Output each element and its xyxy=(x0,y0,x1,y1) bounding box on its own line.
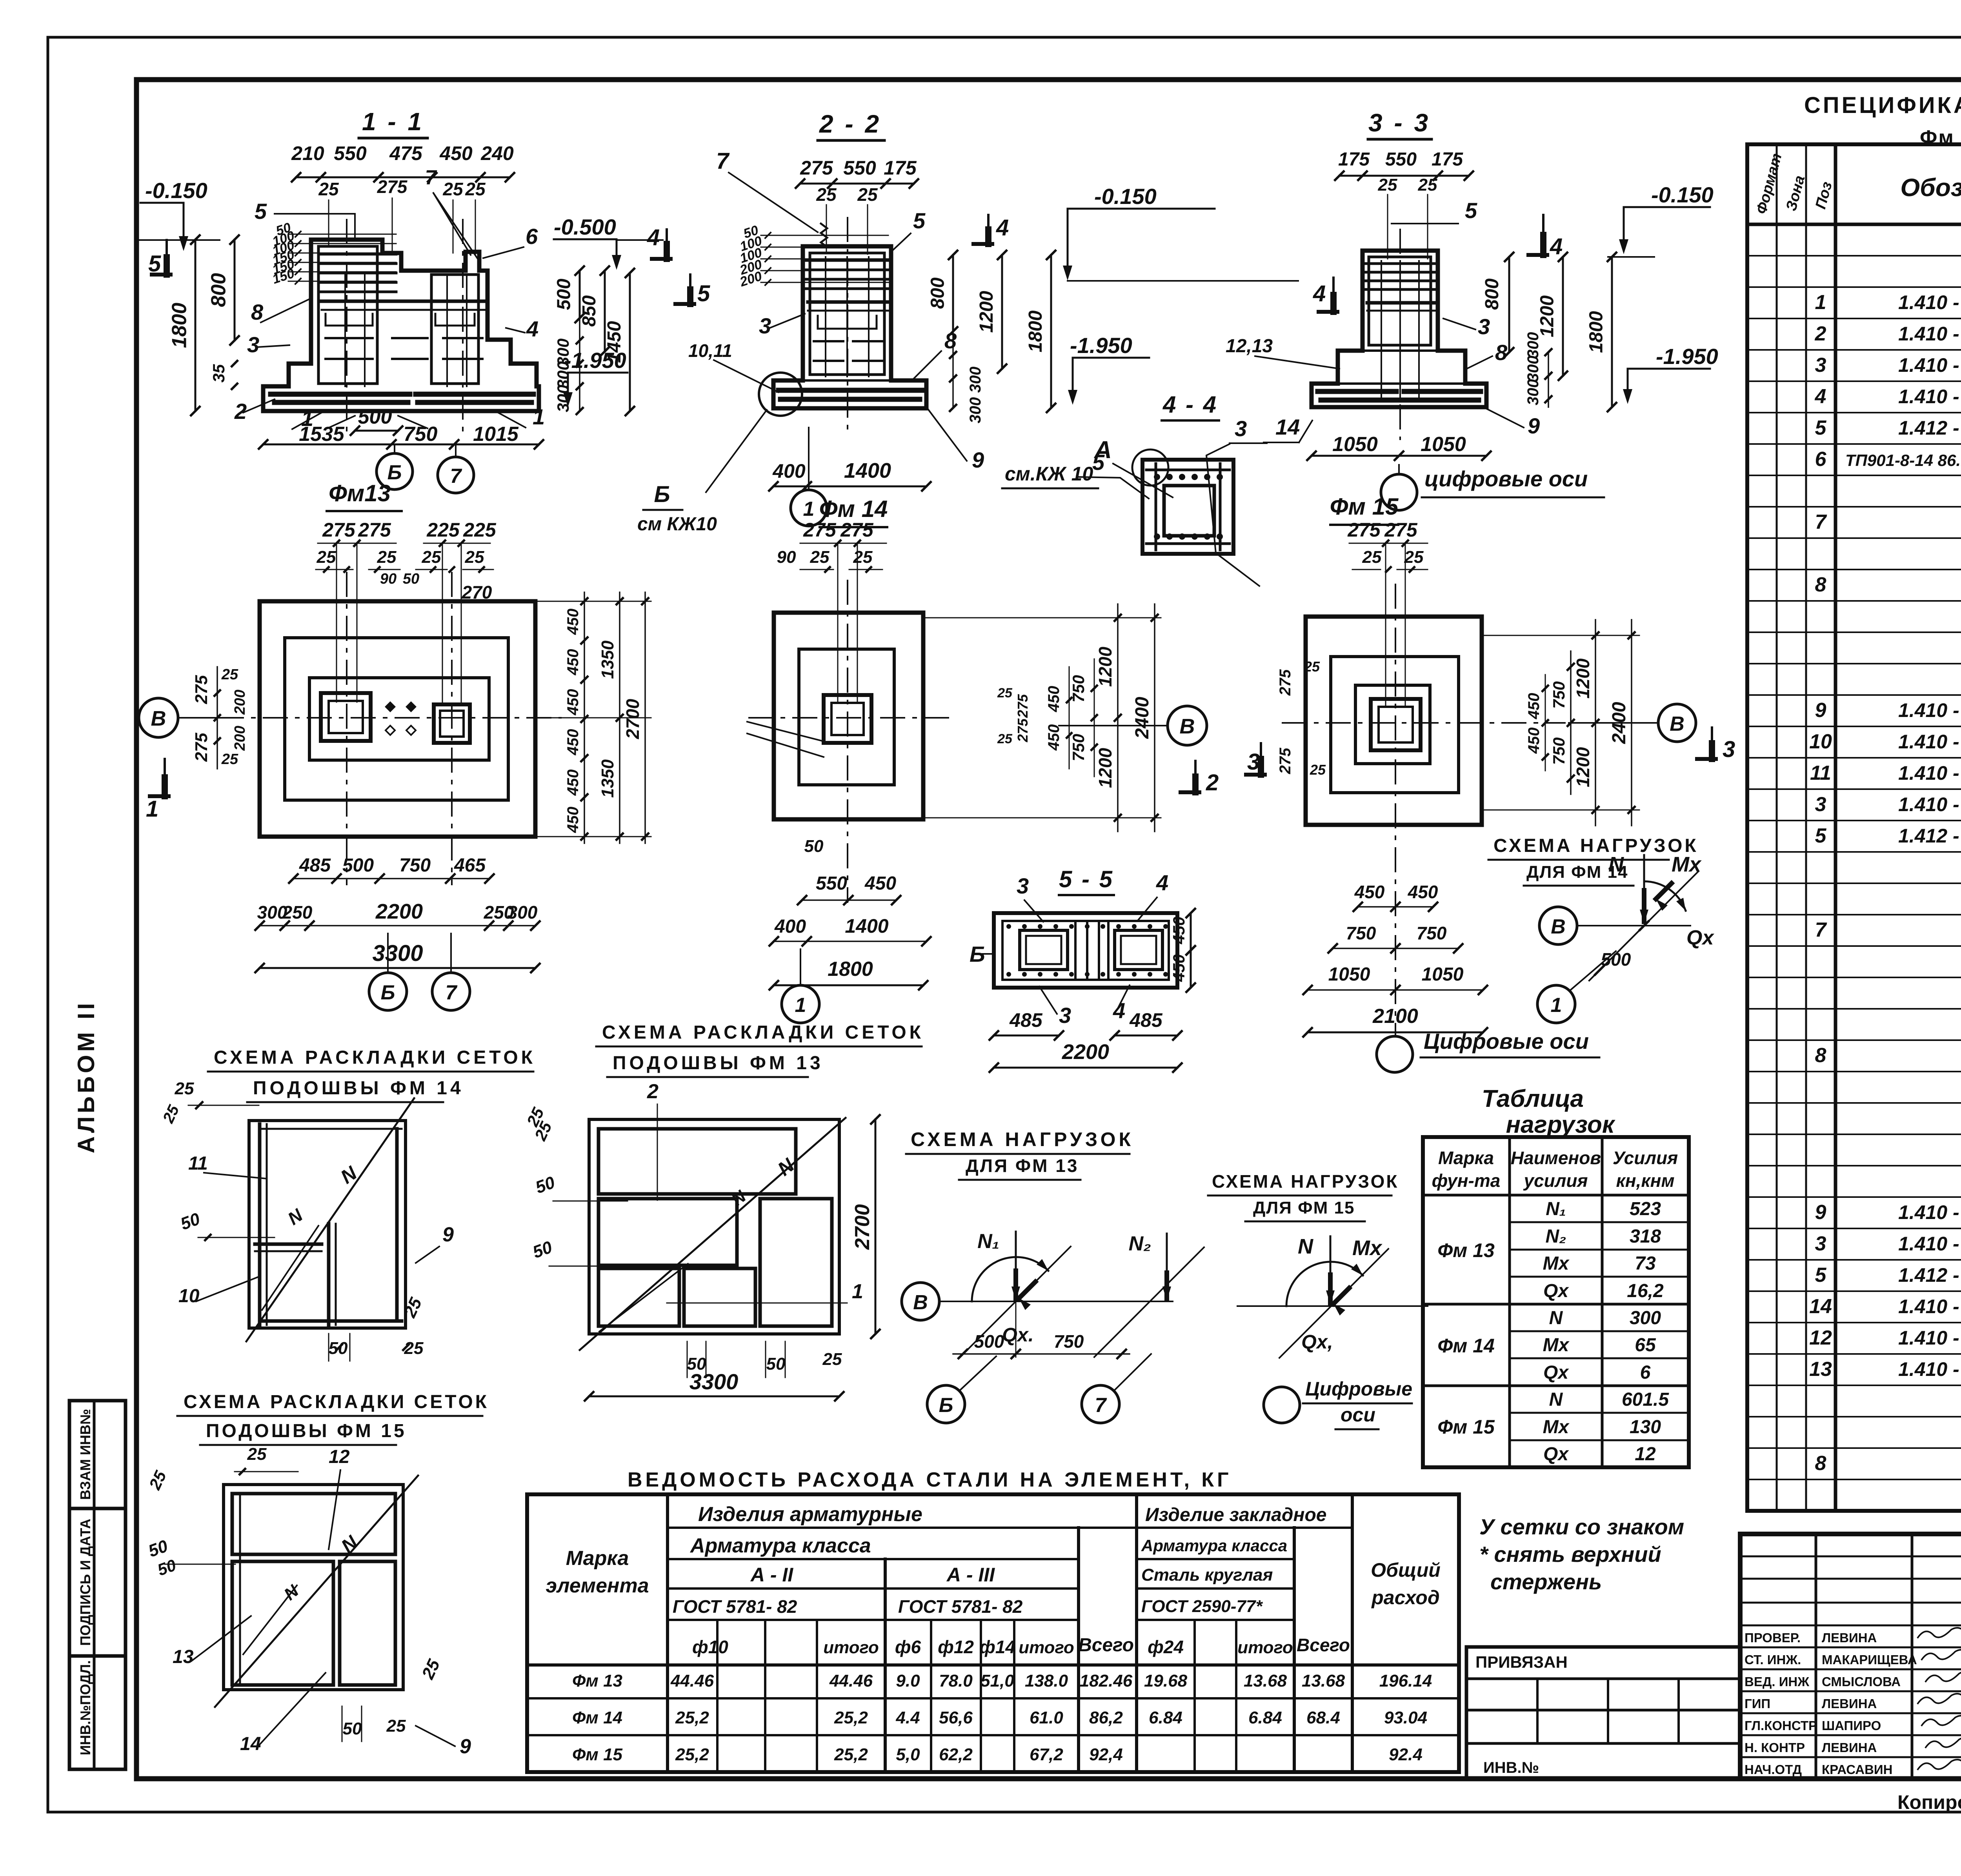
svg-text:6: 6 xyxy=(1815,448,1827,471)
svg-text:СХЕМА РАСКЛАДКИ СЕТОК: СХЕМА РАСКЛАДКИ СЕТОК xyxy=(602,1022,924,1043)
svg-text:93.04: 93.04 xyxy=(1384,1708,1427,1727)
svg-text:16,2: 16,2 xyxy=(1627,1281,1664,1301)
section 2-2 axis circle 1 xyxy=(791,490,827,526)
svg-text:СПЕЦИФИКАЦИЯ МОНОЛИТНЫХ ФУНДАМ: СПЕЦИФИКАЦИЯ МОНОЛИТНЫХ ФУНДАМЕНТОВ xyxy=(1804,93,1961,118)
section 2-2 level line xyxy=(1068,280,1298,282)
svg-text:475: 475 xyxy=(389,142,423,164)
svg-text:1: 1 xyxy=(146,796,158,822)
load scheme Fm15 Qx diagonal xyxy=(1279,1249,1388,1358)
svg-text:3: 3 xyxy=(1017,873,1029,898)
svg-text:В: В xyxy=(1670,713,1684,735)
svg-text:68.4: 68.4 xyxy=(1306,1708,1340,1727)
svg-text:750: 750 xyxy=(1417,923,1447,943)
svg-text:МАКАРИЩЕВА: МАКАРИЩЕВА xyxy=(1822,1652,1917,1667)
plan Fm15 bolt box xyxy=(1371,699,1421,750)
svg-text:2400: 2400 xyxy=(1132,697,1153,739)
svg-text:14: 14 xyxy=(240,1734,261,1754)
svg-text:50: 50 xyxy=(804,837,824,856)
load scheme Fm14 dim 500 xyxy=(1589,926,1644,981)
detail 5-5 bolt squares xyxy=(1020,930,1068,970)
svg-text:450: 450 xyxy=(564,807,582,833)
plan Fm15 rect3 xyxy=(1355,685,1430,764)
plan Fm13 left bolt box xyxy=(321,693,371,741)
svg-text:10: 10 xyxy=(178,1286,200,1306)
svg-text:1.410 - 3: 1.410 - 3 xyxy=(1898,323,1961,345)
svg-text:-0.150: -0.150 xyxy=(145,178,207,203)
svg-text:4: 4 xyxy=(996,215,1009,240)
svg-text:25: 25 xyxy=(1378,175,1397,195)
section 2-2 detail circle at slab end xyxy=(759,373,802,416)
svg-text:25: 25 xyxy=(810,548,830,567)
svg-text:В: В xyxy=(1180,715,1195,738)
svg-text:44.46: 44.46 xyxy=(829,1671,873,1690)
svg-text:1.410 - 3: 1.410 - 3 xyxy=(1898,1233,1961,1255)
mesh layout Fm14 square xyxy=(249,1121,406,1328)
svg-text:56,6: 56,6 xyxy=(939,1708,973,1727)
svg-text:Qx: Qx xyxy=(1543,1281,1569,1301)
svg-text:СХЕМА РАСКЛАДКИ СЕТОК: СХЕМА РАСКЛАДКИ СЕТОК xyxy=(214,1047,536,1068)
svg-text:1.412 - 1/77: 1.412 - 1/77 xyxy=(1898,1264,1961,1286)
section 3-3 centre axis xyxy=(1399,229,1401,439)
svg-text:3: 3 xyxy=(1815,1232,1826,1255)
svg-text:550: 550 xyxy=(1385,149,1417,170)
plan Fm14 bolt box xyxy=(824,695,871,743)
svg-text:1.410 - 3: 1.410 - 3 xyxy=(1898,1201,1961,1223)
svg-text:6: 6 xyxy=(1640,1362,1651,1383)
svg-text:итого: итого xyxy=(823,1638,879,1657)
plan Fm13 outer slab xyxy=(260,601,535,837)
svg-text:3 - 3: 3 - 3 xyxy=(1368,109,1430,137)
section 1-1 inner verticals xyxy=(344,275,346,386)
svg-text:51,0: 51,0 xyxy=(980,1671,1014,1690)
svg-text:25,2: 25,2 xyxy=(675,1745,709,1764)
svg-text:225: 225 xyxy=(426,519,460,541)
svg-text:50: 50 xyxy=(343,1719,362,1738)
svg-text:550: 550 xyxy=(334,142,367,164)
svg-text:500: 500 xyxy=(342,855,374,876)
plan Fm15 right dim chains xyxy=(1482,635,1639,636)
svg-text:800: 800 xyxy=(1482,278,1503,310)
svg-text:11: 11 xyxy=(1810,762,1831,784)
svg-text:7: 7 xyxy=(1815,919,1827,941)
mesh layout Fm15 square xyxy=(224,1485,403,1690)
svg-text:210: 210 xyxy=(291,142,324,164)
svg-text:расход: расход xyxy=(1371,1587,1440,1609)
svg-text:усилия: усилия xyxy=(1523,1170,1588,1191)
plan Fm13 axis circles B 7 xyxy=(369,973,407,1010)
load scheme Fm13 dims 500 750 xyxy=(953,1353,1130,1355)
svg-text:5: 5 xyxy=(1815,1264,1827,1286)
svg-text:1200: 1200 xyxy=(976,291,997,333)
svg-text:8: 8 xyxy=(1815,1044,1826,1067)
svg-text:1800: 1800 xyxy=(1025,310,1046,352)
svg-text:Фм13: Фм13 xyxy=(329,480,391,506)
svg-text:4: 4 xyxy=(1815,385,1826,408)
svg-text:92.4: 92.4 xyxy=(1389,1745,1423,1764)
svg-text:750: 750 xyxy=(1550,681,1568,709)
svg-text:25: 25 xyxy=(1362,548,1382,567)
svg-text:2700: 2700 xyxy=(622,699,643,739)
svg-text:800: 800 xyxy=(207,273,230,307)
svg-text:12: 12 xyxy=(1635,1444,1656,1465)
detail 5-5 rebar dots xyxy=(1006,924,1011,929)
svg-text:Копировал: Коршунова: Копировал: Коршунова xyxy=(1897,1791,1961,1813)
svg-text:СХЕМА РАСКЛАДКИ СЕТОК: СХЕМА РАСКЛАДКИ СЕТОК xyxy=(184,1392,489,1412)
svg-text:78.0: 78.0 xyxy=(939,1671,973,1690)
section 1-1 left ladder dims xyxy=(288,234,396,235)
svg-text:450: 450 xyxy=(1045,724,1062,751)
svg-text:275: 275 xyxy=(1347,519,1381,541)
section 2-2 cut mark 4 upper xyxy=(987,215,990,244)
svg-text:9: 9 xyxy=(442,1223,454,1246)
svg-text:ПОДОШВЫ ФМ 14: ПОДОШВЫ ФМ 14 xyxy=(253,1078,464,1099)
svg-text:НАЧ.ОТД: НАЧ.ОТД xyxy=(1745,1762,1802,1777)
svg-text:182.46: 182.46 xyxy=(1080,1671,1133,1690)
svg-text:Н. КОНТР: Н. КОНТР xyxy=(1745,1740,1805,1755)
svg-text:10,11: 10,11 xyxy=(688,340,732,361)
svg-text:Фм 13: Фм 13 xyxy=(1437,1239,1495,1261)
svg-text:25: 25 xyxy=(1418,175,1437,195)
load scheme Fm13 axis circles B 7 xyxy=(927,1385,965,1423)
svg-text:25: 25 xyxy=(221,666,238,683)
svg-text:А - III: А - III xyxy=(946,1564,995,1586)
svg-text:44.46: 44.46 xyxy=(670,1671,714,1690)
plan Fm13 right dim chains xyxy=(584,592,585,843)
svg-text:2200: 2200 xyxy=(1062,1040,1109,1064)
svg-text:Qx.: Qx. xyxy=(1002,1324,1034,1346)
svg-text:см КЖ10: см КЖ10 xyxy=(637,514,717,535)
svg-text:ПРОВЕР.: ПРОВЕР. xyxy=(1745,1630,1801,1645)
mesh layout Fm15 diagonal N xyxy=(215,1476,418,1707)
svg-text:5 - 5: 5 - 5 xyxy=(1059,866,1114,892)
svg-text:4: 4 xyxy=(1313,281,1326,306)
plan Fm14 outer slab xyxy=(774,613,923,819)
svg-text:ПОДОШВЫ ФМ 15: ПОДОШВЫ ФМ 15 xyxy=(206,1421,407,1441)
svg-text:300: 300 xyxy=(1524,356,1542,382)
svg-text:25,2: 25,2 xyxy=(834,1745,868,1764)
detail 4-4 bolt box section xyxy=(1142,460,1233,554)
plan Fm13 cut mark 1 left xyxy=(164,759,166,796)
svg-text:300: 300 xyxy=(1524,332,1542,358)
svg-text:1535: 1535 xyxy=(299,423,345,446)
svg-text:450: 450 xyxy=(564,609,582,635)
svg-text:2200: 2200 xyxy=(375,900,423,923)
svg-text:1: 1 xyxy=(852,1280,863,1303)
svg-text:6.84: 6.84 xyxy=(1149,1708,1182,1727)
mesh layout Fm13 mesh sheets xyxy=(598,1129,796,1194)
detail 5-5 vertical bars xyxy=(1074,923,1077,978)
svg-text:9: 9 xyxy=(1815,1201,1826,1224)
load scheme Fm14 axis circle V xyxy=(1539,907,1577,944)
svg-text:ЛЕВИНА: ЛЕВИНА xyxy=(1822,1740,1877,1755)
section 1-1 label 5 leader xyxy=(275,213,355,215)
svg-text:1050: 1050 xyxy=(1421,433,1466,456)
svg-text:Изделия арматурные: Изделия арматурные xyxy=(698,1503,922,1526)
svg-text:см.КЖ 10: см.КЖ 10 xyxy=(1005,463,1093,485)
svg-text:Mx: Mx xyxy=(1543,1417,1570,1437)
section 3-3 pillar rebar cage xyxy=(1369,257,1431,345)
section 1-1 pillar rebar cage xyxy=(318,246,377,384)
svg-text:9: 9 xyxy=(1528,413,1540,438)
svg-text:ШАПИРО: ШАПИРО xyxy=(1822,1718,1881,1733)
section 2-2 inner verticals xyxy=(825,257,826,377)
svg-text:ф6: ф6 xyxy=(895,1637,921,1657)
svg-text:275: 275 xyxy=(358,519,391,541)
plan Fm13 bottom dim row1 xyxy=(293,878,489,879)
svg-text:2 - 2: 2 - 2 xyxy=(819,110,881,138)
svg-text:7: 7 xyxy=(425,166,437,189)
svg-text:фун-та: фун-та xyxy=(1432,1170,1501,1191)
load scheme Fm15 Mx arc xyxy=(1286,1262,1330,1306)
svg-text:ф10: ф10 xyxy=(692,1637,728,1657)
svg-text:итого: итого xyxy=(1019,1638,1074,1657)
svg-text:Фм 14: Фм 14 xyxy=(1437,1335,1495,1357)
svg-text:Mx: Mx xyxy=(1352,1236,1383,1260)
section 1-1 top dimension chain xyxy=(296,177,510,178)
svg-text:25: 25 xyxy=(1304,659,1320,675)
svg-text:25: 25 xyxy=(853,548,873,567)
svg-text:8: 8 xyxy=(1815,1452,1826,1475)
svg-text:2: 2 xyxy=(1815,322,1826,345)
svg-text:ГИП: ГИП xyxy=(1745,1696,1770,1711)
plan Fm13 pedestal rect xyxy=(309,678,489,760)
svg-text:ИНВ.№: ИНВ.№ xyxy=(1483,1759,1539,1776)
svg-text:Цифровые оси: Цифровые оси xyxy=(1424,1029,1589,1054)
svg-text:25: 25 xyxy=(422,548,441,567)
svg-text:3: 3 xyxy=(1815,354,1826,377)
svg-text:12: 12 xyxy=(1809,1326,1832,1349)
load scheme Fm15 N arrow xyxy=(1330,1236,1332,1303)
svg-text:1200: 1200 xyxy=(1095,646,1115,687)
svg-text:ПРИВЯЗАН: ПРИВЯЗАН xyxy=(1475,1653,1568,1671)
svg-text:750: 750 xyxy=(1069,734,1088,761)
svg-text:62,2: 62,2 xyxy=(939,1745,973,1764)
svg-text:25: 25 xyxy=(175,1079,194,1098)
svg-text:3: 3 xyxy=(1247,749,1260,775)
mesh layout Fm13 dim 2700 xyxy=(875,1119,877,1334)
svg-text:В: В xyxy=(151,707,166,730)
svg-text:Фм 15: Фм 15 xyxy=(572,1745,623,1764)
svg-text:ф12: ф12 xyxy=(938,1637,974,1657)
section 1-1 label 7 leader xyxy=(433,193,471,255)
svg-text:ГЛ.КОНСТР: ГЛ.КОНСТР xyxy=(1745,1718,1817,1733)
svg-text:-0.150: -0.150 xyxy=(1651,182,1714,207)
svg-text:500: 500 xyxy=(554,278,575,310)
svg-text:элемента: элемента xyxy=(546,1574,649,1597)
svg-text:485: 485 xyxy=(1129,1009,1163,1031)
svg-text:ГОСТ 2590-77*: ГОСТ 2590-77* xyxy=(1141,1597,1263,1616)
svg-text:ПОДПИСЬ И ДАТА: ПОДПИСЬ И ДАТА xyxy=(77,1519,93,1646)
svg-text:275: 275 xyxy=(322,519,356,541)
svg-text:25: 25 xyxy=(997,731,1013,746)
svg-text:25,2: 25,2 xyxy=(675,1708,709,1727)
svg-text:25: 25 xyxy=(857,184,878,205)
svg-text:5,0: 5,0 xyxy=(896,1745,920,1764)
plan Fm13 bottom dim row2 xyxy=(260,925,535,926)
svg-text:Марка: Марка xyxy=(1438,1148,1494,1168)
svg-text:200: 200 xyxy=(232,726,248,751)
section 1-1 dim 1800 left xyxy=(195,240,196,411)
svg-text:400: 400 xyxy=(774,916,806,937)
svg-text:3: 3 xyxy=(1815,793,1826,816)
section 1-1 right cut mark 4 xyxy=(666,229,668,259)
svg-text:5: 5 xyxy=(697,281,710,306)
svg-text:Сталь круглая: Сталь круглая xyxy=(1141,1565,1273,1585)
svg-text:10: 10 xyxy=(1809,730,1832,753)
svg-text:50: 50 xyxy=(403,571,419,587)
section 1-1 axis circle 7 xyxy=(438,457,474,493)
svg-text:Qx: Qx xyxy=(1686,926,1714,949)
svg-text:1800: 1800 xyxy=(828,958,873,981)
svg-text:ДЛЯ ФМ 15: ДЛЯ ФМ 15 xyxy=(1253,1198,1355,1217)
svg-text:КРАСАВИН: КРАСАВИН xyxy=(1822,1762,1893,1777)
svg-text:25: 25 xyxy=(997,686,1013,701)
svg-text:450: 450 xyxy=(1170,954,1188,982)
svg-text:11: 11 xyxy=(188,1153,208,1174)
plan Fm13 diamonds xyxy=(385,701,396,712)
svg-text:4 - 4: 4 - 4 xyxy=(1162,391,1218,418)
svg-text:8: 8 xyxy=(1815,573,1826,596)
svg-text:-0.500: -0.500 xyxy=(554,215,616,239)
svg-text:оси: оси xyxy=(1341,1404,1375,1426)
load scheme Fm13 Qx diagonal xyxy=(961,1246,1071,1356)
svg-text:7: 7 xyxy=(1815,511,1827,533)
svg-text:4: 4 xyxy=(1113,998,1125,1023)
svg-text:275: 275 xyxy=(803,519,837,541)
svg-text:ВЕДОМОСТЬ РАСХОДА СТАЛИ НА ЭЛЕ: ВЕДОМОСТЬ РАСХОДА СТАЛИ НА ЭЛЕМЕНТ, КГ xyxy=(628,1468,1232,1491)
svg-text:У сетки со знаком: У сетки со знаком xyxy=(1479,1514,1684,1539)
svg-text:4: 4 xyxy=(1156,870,1168,895)
svg-text:275: 275 xyxy=(192,733,211,762)
plan Fm14 step rect xyxy=(799,649,894,785)
svg-text:25: 25 xyxy=(318,179,339,199)
svg-text:25: 25 xyxy=(816,184,837,205)
Fm14 right dim cluster xyxy=(923,617,1161,619)
svg-text:3: 3 xyxy=(759,313,771,338)
svg-text:-1.950: -1.950 xyxy=(1070,333,1132,358)
section 1-1 stirrup dashes xyxy=(326,314,373,326)
section 2-2 anchor bolt zigzag xyxy=(821,224,827,247)
svg-text:65: 65 xyxy=(1635,1335,1656,1356)
svg-text:450: 450 xyxy=(864,873,896,894)
plan Fm13 step rect xyxy=(285,638,508,800)
svg-text:1: 1 xyxy=(533,404,545,429)
svg-text:1400: 1400 xyxy=(845,915,888,937)
svg-text:61.0: 61.0 xyxy=(1030,1708,1063,1727)
svg-text:Qx: Qx xyxy=(1543,1362,1569,1383)
svg-text:ЛЕВИНА: ЛЕВИНА xyxy=(1822,1630,1877,1645)
svg-text:13: 13 xyxy=(173,1647,194,1667)
svg-text:4: 4 xyxy=(1550,234,1563,259)
svg-text:450: 450 xyxy=(564,729,582,756)
mesh layout Fm13 square xyxy=(589,1119,839,1334)
plan Fm14 axis circle 1 xyxy=(782,985,819,1023)
svg-text:N: N xyxy=(1298,1235,1313,1258)
load scheme Fm13 N1 arrow xyxy=(1015,1232,1017,1299)
svg-text:стержень: стержень xyxy=(1490,1569,1602,1594)
svg-text:25: 25 xyxy=(377,548,397,567)
svg-text:ГОСТ 5781- 82: ГОСТ 5781- 82 xyxy=(673,1596,797,1617)
svg-text:1350: 1350 xyxy=(598,640,617,679)
svg-text:750: 750 xyxy=(1054,1331,1084,1352)
section 3-3 right dims 800 1200 1800 xyxy=(1508,257,1510,352)
svg-text:250: 250 xyxy=(282,902,313,923)
plan Fm15 rect2 xyxy=(1331,657,1459,793)
svg-text:800: 800 xyxy=(928,277,948,309)
svg-text:2: 2 xyxy=(1206,770,1219,795)
svg-text:Фм 15: Фм 15 xyxy=(1437,1416,1495,1438)
svg-text:-1.950: -1.950 xyxy=(1656,344,1718,369)
svg-text:Изделие закладное: Изделие закладное xyxy=(1145,1505,1327,1525)
svg-text:1.410 - 3: 1.410 - 3 xyxy=(1898,354,1961,376)
svg-text:1: 1 xyxy=(1551,994,1562,1017)
section 2-2 stirrup dashes xyxy=(818,316,877,329)
svg-text:9: 9 xyxy=(460,1735,471,1758)
svg-text:1200: 1200 xyxy=(1537,295,1558,337)
svg-text:7: 7 xyxy=(450,465,462,488)
svg-text:73: 73 xyxy=(1635,1253,1656,1274)
svg-text:3: 3 xyxy=(1478,314,1490,339)
svg-text:175: 175 xyxy=(884,157,917,179)
svg-text:N: N xyxy=(1549,1308,1563,1328)
svg-text:6: 6 xyxy=(526,224,538,249)
specification table grid xyxy=(1747,144,1961,1511)
section 2-2 bottom dims 400 1400 xyxy=(773,486,926,488)
svg-text:450: 450 xyxy=(1170,917,1188,944)
svg-text:1: 1 xyxy=(1815,291,1826,314)
plan Fm15 axes xyxy=(1282,722,1565,724)
svg-text:3: 3 xyxy=(1059,1003,1071,1028)
svg-text:12: 12 xyxy=(329,1447,350,1467)
svg-text:Фм 14: Фм 14 xyxy=(819,496,888,522)
svg-text:1.410 - 3: 1.410 - 3 xyxy=(1898,386,1961,408)
svg-text:1200: 1200 xyxy=(1573,658,1593,699)
svg-text:275: 275 xyxy=(1015,694,1031,718)
svg-text:СХЕМА НАГРУЗОК: СХЕМА НАГРУЗОК xyxy=(1212,1171,1399,1192)
svg-text:Общий: Общий xyxy=(1371,1559,1441,1581)
svg-text:9.0: 9.0 xyxy=(896,1671,920,1690)
plan Fm15 bottom axis circle xyxy=(1377,1036,1413,1072)
section 1-1 dim 800 left xyxy=(234,240,236,340)
section 1-1 right cut mark 5 xyxy=(689,275,691,304)
load table grid xyxy=(1423,1137,1689,1467)
svg-text:N₁: N₁ xyxy=(977,1230,999,1253)
mesh layout Fm15 inner sheets xyxy=(232,1494,395,1554)
svg-text:485: 485 xyxy=(1009,1009,1043,1031)
svg-text:300: 300 xyxy=(508,902,538,923)
section 2-2 foundation outline xyxy=(773,246,926,408)
section 1-1 foundation outline xyxy=(263,240,539,411)
svg-text:итого: итого xyxy=(1237,1638,1293,1657)
axis circle V middle xyxy=(1168,706,1207,745)
svg-text:25: 25 xyxy=(221,751,238,768)
svg-text:1050: 1050 xyxy=(1328,964,1370,985)
svg-text:Обозначение: Обозначение xyxy=(1900,173,1961,202)
svg-text:300: 300 xyxy=(967,367,984,393)
svg-text:225: 225 xyxy=(463,519,497,541)
plan Fm13 axis circle V xyxy=(139,698,178,737)
svg-text:1.412 - 1/77: 1.412 - 1/77 xyxy=(1898,417,1961,439)
svg-text:450: 450 xyxy=(1408,882,1438,902)
svg-text:750: 750 xyxy=(1550,737,1568,765)
svg-text:35: 35 xyxy=(209,364,228,382)
svg-text:цифровые оси: цифровые оси xyxy=(1424,466,1588,491)
svg-text:25: 25 xyxy=(822,1350,842,1369)
svg-text:14: 14 xyxy=(1275,415,1300,439)
svg-text:8: 8 xyxy=(944,328,957,353)
svg-text:СХЕМА НАГРУЗОК: СХЕМА НАГРУЗОК xyxy=(911,1128,1134,1150)
svg-text:850: 850 xyxy=(579,295,600,327)
